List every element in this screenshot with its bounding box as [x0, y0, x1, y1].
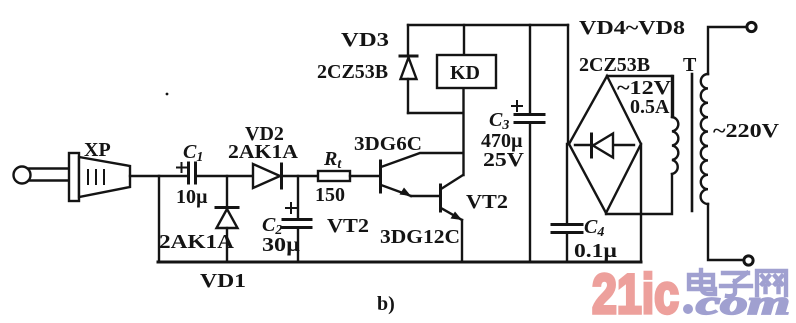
resistor Rf: [318, 171, 350, 181]
wire Rf to VT1 base: [350, 175, 379, 177]
transformer T: [672, 22, 756, 265]
svg-text:2CZ53B: 2CZ53B: [317, 61, 388, 83]
diode VD1: [216, 176, 238, 262]
wire C1 to VD2: [196, 175, 253, 177]
svg-text:30µ: 30µ: [262, 234, 301, 256]
svg-text:VD1: VD1: [200, 270, 246, 292]
wire collector rail: [462, 86, 464, 175]
svg-text:25V: 25V: [483, 149, 525, 171]
svg-text:3DG6C: 3DG6C: [354, 133, 422, 155]
wire VD2 to Rf: [283, 175, 318, 177]
wire top rail drop to bridge left vertex: [567, 25, 569, 144]
svg-text:KD: KD: [450, 62, 480, 84]
wire top rail: [408, 24, 568, 26]
capacitor C4: [552, 144, 582, 262]
svg-text:2CZ53B: 2CZ53B: [579, 54, 650, 76]
svg-text:~220V: ~220V: [713, 120, 780, 142]
transistor VT2: [441, 175, 464, 262]
transistor VT1: [381, 153, 463, 196]
diode VD2: [253, 164, 282, 188]
svg-text:21ic: 21ic: [592, 262, 679, 318]
svg-text:C1: C1: [183, 141, 203, 165]
svg-text:T: T: [683, 54, 697, 76]
svg-text:VT2: VT2: [327, 215, 369, 237]
svg-text:C4: C4: [584, 216, 604, 240]
wire left drop to bottom rail: [158, 176, 160, 262]
svg-text:VD4~VD8: VD4~VD8: [579, 17, 685, 39]
wire bridge right vertex down: [640, 144, 642, 262]
wire bridge top vertex to secondary: [607, 76, 673, 117]
svg-text:0.1µ: 0.1µ: [574, 240, 618, 262]
svg-text:XP: XP: [84, 139, 111, 161]
capacitor C3: [512, 25, 544, 262]
svg-text:3DG12C: 3DG12C: [380, 226, 460, 248]
capacitor C1: [177, 163, 196, 183]
watermark 21ic.com: [592, 262, 790, 323]
watermark 电子网: [689, 270, 786, 296]
svg-text:2AK1A: 2AK1A: [228, 141, 299, 163]
svg-text:150: 150: [315, 184, 345, 206]
svg-text:0.5A: 0.5A: [630, 96, 670, 118]
plug XP: [14, 153, 131, 201]
svg-text:b): b): [377, 293, 395, 315]
svg-text:VD3: VD3: [341, 29, 389, 51]
svg-text:10µ: 10µ: [176, 186, 208, 208]
scan speck: [166, 93, 169, 96]
wire bottom rail: [158, 261, 641, 264]
capacitor C2: [283, 176, 311, 262]
relay KD: [437, 25, 496, 88]
diode VD3: [400, 25, 417, 113]
wire XP to C1: [130, 175, 186, 177]
svg-text:Rt: Rt: [323, 148, 342, 172]
wire bridge bottom vertex to secondary: [606, 174, 672, 214]
svg-text:VT2: VT2: [466, 191, 508, 213]
svg-text:2AK1A: 2AK1A: [159, 231, 235, 253]
wire VD3 bottom to rail: [408, 112, 463, 114]
bridge rectifier VD4-VD8: [569, 76, 641, 213]
